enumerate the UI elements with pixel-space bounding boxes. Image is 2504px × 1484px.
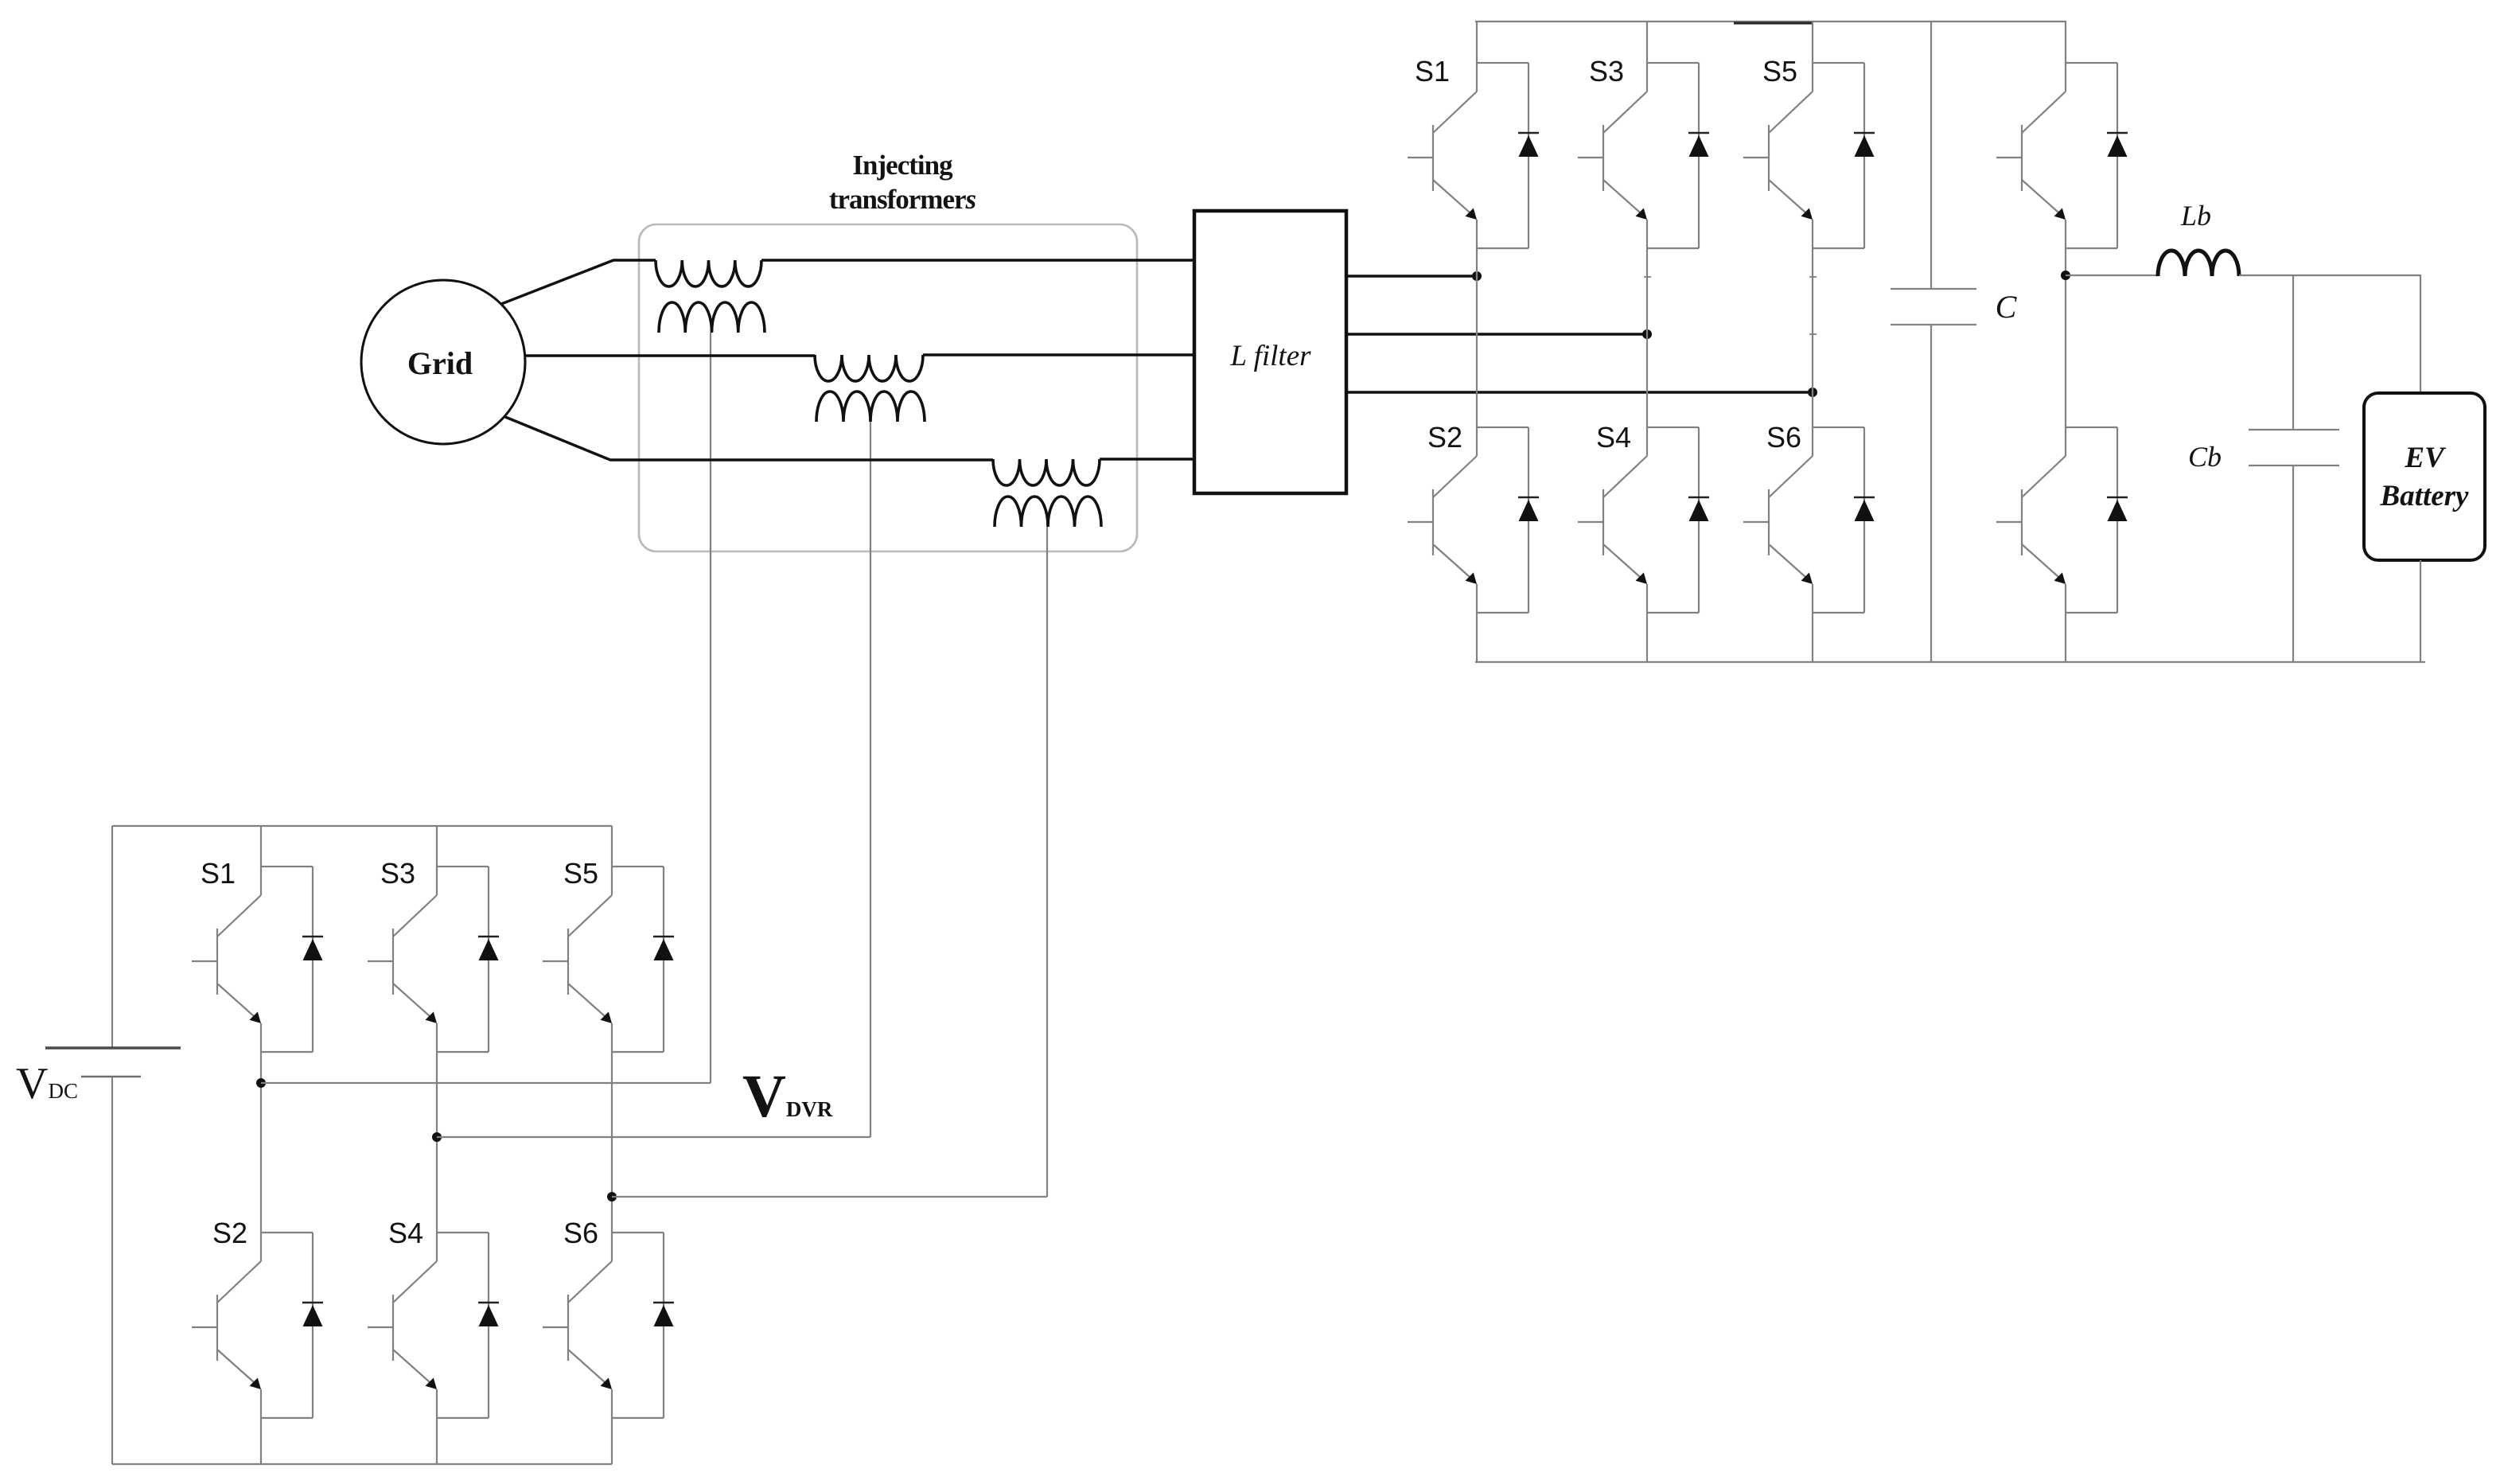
svg-text:S4: S4 xyxy=(1596,421,1631,454)
junction: DVR phase-c node xyxy=(607,1192,617,1202)
wire: positive DC rail (top) xyxy=(1475,21,2066,22)
wire: DVR leg a top xyxy=(260,826,262,867)
wire: DVR leg b middle xyxy=(436,1052,438,1233)
injecting transformers enclosure box xyxy=(639,224,1137,551)
wire: DVR inverter top rail xyxy=(112,825,612,827)
IGBT S5 with antiparallel diode (rectifier) xyxy=(1743,62,1875,248)
tick: phase-a level on leg S5/S6 xyxy=(1809,276,1817,278)
wire: capacitor C top lead xyxy=(1930,21,1932,289)
wire: DVR leg b bottom xyxy=(436,1418,438,1464)
svg-text:Injecting: Injecting xyxy=(852,150,953,181)
wire: rectifier leg b bottom xyxy=(1646,613,1648,662)
wire: T3 secondary tap down to VDVR phase-c node xyxy=(1046,527,1048,1197)
transformer T3 primary winding xyxy=(993,459,1100,485)
junction: phase a on leg S1/S2 xyxy=(1472,271,1482,281)
IGBT S4 with antiparallel diode (rectifier) xyxy=(1578,427,1709,613)
capacitor C plates xyxy=(1891,288,1976,290)
wire: negative DC rail (bottom) xyxy=(1475,661,2425,663)
junction: buck midpoint node xyxy=(2061,271,2070,280)
svg-text:Lb: Lb xyxy=(2180,200,2211,232)
wire: T2 primary to L filter (phase B) xyxy=(923,353,1194,356)
svg-text:S6: S6 xyxy=(1766,421,1801,454)
wire: DVR leg a bottom xyxy=(260,1418,262,1464)
wire: DVR leg a middle xyxy=(260,1052,262,1233)
svg-text:S1: S1 xyxy=(201,857,236,890)
transformer T1 primary winding xyxy=(656,260,761,286)
IGBT upper buck switch with antiparallel diode xyxy=(1996,62,2128,248)
wire: rectifier leg a middle xyxy=(1476,248,1478,427)
wire: DVR leg c middle xyxy=(611,1052,613,1233)
junction: DVR phase-b node xyxy=(432,1132,442,1142)
wire: dark overdrawn segment of top rail xyxy=(1734,21,1813,24)
transformer T2 primary winding xyxy=(815,355,923,381)
IGBT S4 with antiparallel diode (DVR) xyxy=(368,1232,499,1418)
wire: Cb top lead xyxy=(2292,275,2294,430)
wire: EV battery negative to bottom rail xyxy=(2420,560,2421,662)
EV Battery box xyxy=(2364,393,2485,560)
wire: buck node to Lb xyxy=(2066,275,2158,276)
wire: rectifier leg b top xyxy=(1646,21,1648,64)
wire: rectifier leg c middle xyxy=(1812,248,1813,427)
IGBT S6 with antiparallel diode (rectifier) xyxy=(1743,427,1875,613)
wire: T1 secondary tap down to VDVR phase-a node xyxy=(710,333,711,1083)
svg-text:S5: S5 xyxy=(1762,55,1797,88)
wire: grid to T1 primary (phase A) xyxy=(501,260,656,304)
battery VDC plates xyxy=(45,1046,181,1049)
wire: buck leg middle xyxy=(2065,248,2066,427)
svg-text:S4: S4 xyxy=(388,1217,423,1249)
wire: L filter to rectifier leg 3 (phase c) xyxy=(1346,391,1813,393)
wire: DVR phase-c node to T3 tap xyxy=(612,1196,1047,1198)
transformer T3 secondary winding xyxy=(995,497,1101,527)
IGBT S2 with antiparallel diode (DVR) xyxy=(192,1232,323,1418)
wire: rectifier leg a bottom xyxy=(1476,613,1478,662)
IGBT S3 with antiparallel diode (DVR) xyxy=(368,866,499,1052)
svg-text:Battery: Battery xyxy=(2380,480,2470,512)
transformer T1 secondary winding xyxy=(659,302,765,333)
IGBT S3 with antiparallel diode (rectifier) xyxy=(1578,62,1709,248)
wire: DVR inverter bottom rail xyxy=(112,1463,612,1465)
IGBT S5 with antiparallel diode (DVR) xyxy=(543,866,674,1052)
wire: DVR leg c top xyxy=(611,826,613,867)
wire: T1 primary to L filter (phase A) xyxy=(761,259,1194,261)
svg-text:Cb: Cb xyxy=(2188,441,2222,473)
wire: L filter to rectifier leg 2 (phase b) xyxy=(1346,333,1647,335)
wire: rectifier leg c top xyxy=(1812,21,1813,64)
wire: T3 primary to L filter (phase C) xyxy=(1100,458,1194,460)
wire: Cb bottom lead xyxy=(2292,465,2294,662)
wire: DVR left bus upper xyxy=(111,826,113,1048)
wire: DVR phase-a node to T1 tap xyxy=(261,1082,711,1084)
wire: rectifier leg c bottom xyxy=(1812,613,1813,662)
svg-text:S3: S3 xyxy=(1589,55,1624,88)
svg-text:S3: S3 xyxy=(380,857,415,890)
svg-text:S2: S2 xyxy=(1427,421,1462,454)
capacitor Cb plates xyxy=(2249,429,2339,430)
wire: DVR phase-b node to T2 tap xyxy=(437,1136,870,1138)
junction: phase c on leg S5/S6 xyxy=(1808,388,1817,397)
tick: phase-b level on leg S5/S6 xyxy=(1809,333,1817,335)
wire: buck leg top xyxy=(2065,21,2066,64)
IGBT S1 with antiparallel diode (DVR) xyxy=(192,866,323,1052)
transformer T2 secondary winding xyxy=(816,391,925,422)
svg-text:S5: S5 xyxy=(563,857,598,890)
wire: rectifier leg a top xyxy=(1476,21,1478,64)
IGBT S6 with antiparallel diode (DVR) xyxy=(543,1232,674,1418)
wire: capacitor C bottom lead xyxy=(1930,325,1932,662)
wire: DVR left bus lower xyxy=(111,1077,113,1464)
grid source circle xyxy=(361,280,525,444)
svg-text:EV: EV xyxy=(2404,442,2447,474)
IGBT S1 with antiparallel diode (rectifier) xyxy=(1408,62,1539,248)
wire: buck leg bottom xyxy=(2065,613,2066,662)
wire: grid to T3 primary (phase C) xyxy=(505,417,993,460)
wire: grid to T2 primary (phase B) xyxy=(525,354,815,356)
tick: phase-a level on leg S3/S4 xyxy=(1644,276,1651,278)
wire: rectifier leg b middle xyxy=(1646,248,1648,427)
IGBT S2 with antiparallel diode (rectifier) xyxy=(1408,427,1539,613)
wire: L filter to rectifier leg 1 (phase a) xyxy=(1346,275,1477,277)
svg-text:L filter: L filter xyxy=(1229,340,1311,372)
L filter box xyxy=(1194,211,1346,493)
svg-text:C: C xyxy=(1996,289,2018,325)
inductor Lb xyxy=(2158,251,2239,276)
junction: phase b on leg S3/S4 xyxy=(1642,329,1652,339)
wire: Lb to EV battery positive xyxy=(2239,275,2420,393)
wire: DVR leg b top xyxy=(436,826,438,867)
IGBT lower buck switch with antiparallel diode xyxy=(1996,427,2128,613)
junction: DVR phase-a node xyxy=(256,1078,266,1088)
svg-text:S6: S6 xyxy=(563,1217,598,1249)
svg-text:Grid: Grid xyxy=(407,345,473,381)
svg-text:S2: S2 xyxy=(212,1217,247,1249)
svg-text:transformers: transformers xyxy=(829,184,976,215)
wire: T2 secondary tap down to VDVR phase-b node xyxy=(870,422,871,1137)
wire: DVR leg c bottom xyxy=(611,1418,613,1464)
svg-text:S1: S1 xyxy=(1415,55,1450,88)
